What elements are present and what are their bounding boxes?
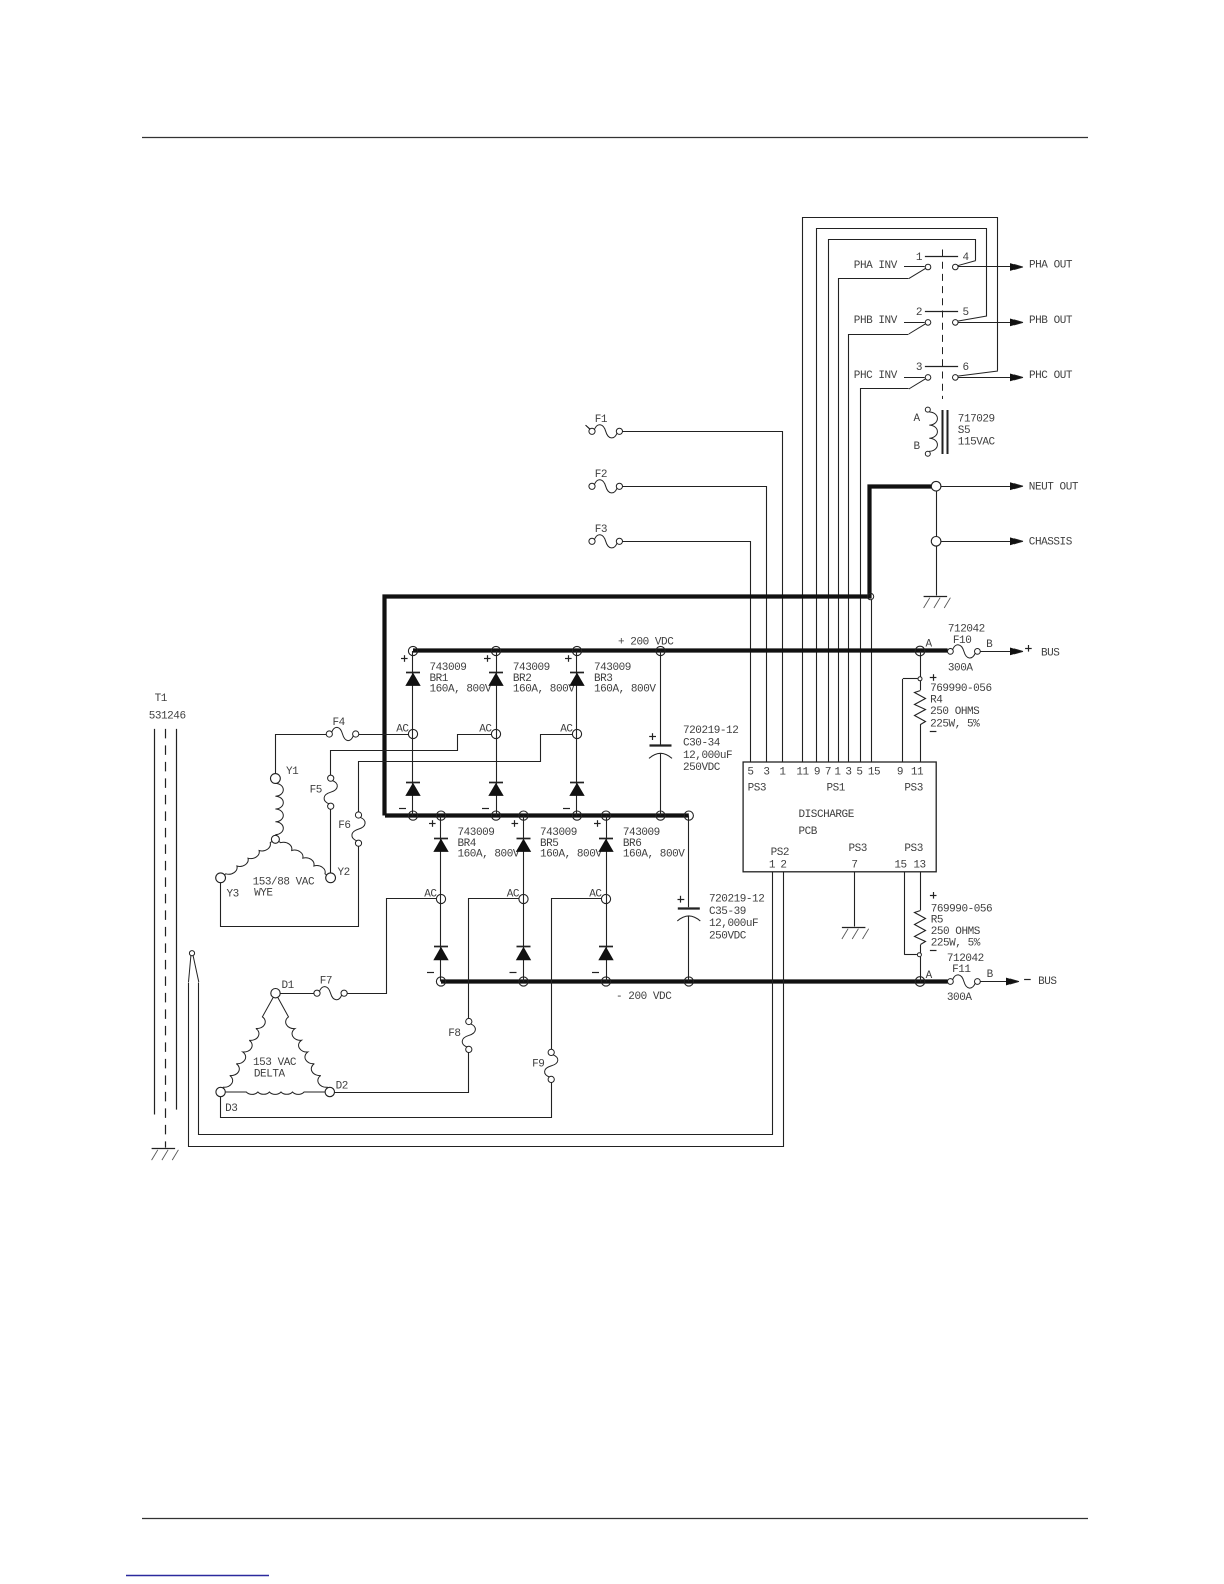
- transformer shield: [189, 951, 194, 956]
- svg-text:F4: F4: [333, 717, 346, 729]
- svg-text:D3: D3: [225, 1103, 237, 1115]
- wire F8 to BR5 AC: [469, 899, 519, 1019]
- svg-text:160A, 800V: 160A, 800V: [513, 684, 575, 696]
- node Y1: [271, 774, 281, 784]
- svg-text:PS3: PS3: [748, 782, 766, 794]
- svg-text:13: 13: [913, 860, 925, 872]
- bridge rectifier BR6 743009: [606, 816, 608, 982]
- resistor R4 769990-056 250 OHMS: [920, 651, 922, 677]
- node wye center: [271, 835, 279, 843]
- svg-text:2: 2: [916, 307, 922, 319]
- delta winding 153 VAC: [221, 993, 276, 1092]
- svg-text:160A, 800V: 160A, 800V: [430, 684, 492, 696]
- svg-text:531246: 531246: [149, 711, 186, 723]
- svg-text:9: 9: [897, 767, 903, 779]
- node BR3 AC terminal: [572, 729, 581, 738]
- ground chassis: [924, 596, 948, 598]
- svg-text:12,000uF: 12,000uF: [683, 750, 732, 762]
- wire D2 to F8: [335, 1053, 469, 1093]
- contactor coil S5 717029 115VAC: [925, 407, 930, 412]
- wire Y1 to F4: [276, 735, 327, 774]
- wire D1 to F7: [280, 993, 314, 995]
- svg-text:160A, 800V: 160A, 800V: [540, 849, 602, 861]
- svg-text:F11: F11: [952, 964, 971, 976]
- node BR6 AC terminal: [601, 894, 610, 903]
- node D3: [216, 1087, 225, 1096]
- wire junction to PS1 pin 15: [871, 600, 873, 762]
- svg-text:NEUT OUT: NEUT OUT: [1029, 481, 1079, 493]
- svg-text:5: 5: [856, 767, 862, 779]
- svg-text:F3: F3: [595, 524, 607, 536]
- top horizontal rule: [142, 137, 1088, 139]
- node BR5 AC terminal: [519, 894, 528, 903]
- svg-text:300A: 300A: [948, 663, 973, 675]
- blue footnote rule: [126, 1575, 269, 1577]
- wire PHA OUT output: [958, 266, 1012, 268]
- svg-text:PCB: PCB: [799, 826, 818, 838]
- transformer T1 boundary line right: [176, 729, 178, 1110]
- bottom horizontal rule: [142, 1518, 1088, 1520]
- svg-text:1: 1: [769, 860, 776, 872]
- wire PHC INV to PS1: [861, 389, 909, 763]
- svg-text:B: B: [914, 441, 921, 453]
- svg-text:5: 5: [963, 307, 969, 319]
- wire F3 to PS3: [623, 542, 751, 763]
- svg-text:12,000uF: 12,000uF: [709, 918, 758, 930]
- wire PHC OUT output: [958, 377, 1012, 379]
- resistor R5 769990-056 250 OHMS: [920, 872, 922, 910]
- svg-text:DISCHARGE: DISCHARGE: [799, 809, 855, 821]
- svg-text:250VDC: 250VDC: [683, 762, 721, 774]
- wire F7 to BR4 AC: [348, 899, 437, 994]
- svg-text:PHA OUT: PHA OUT: [1029, 260, 1073, 272]
- svg-text:F10: F10: [953, 635, 971, 647]
- wire D3 to F9: [221, 1083, 552, 1118]
- svg-text:AC: AC: [560, 724, 573, 736]
- node C35-39 bottom: [684, 977, 693, 986]
- node BR3 + terminal: [572, 646, 581, 655]
- svg-text:BUS: BUS: [1041, 648, 1060, 660]
- svg-text:BUS: BUS: [1038, 976, 1057, 988]
- svg-text:C35-39: C35-39: [709, 906, 746, 918]
- node Y3: [216, 873, 226, 883]
- svg-text:Y2: Y2: [338, 867, 350, 879]
- fuse F11 712042 300A: [948, 979, 954, 985]
- node neutral corner junction: [867, 593, 873, 599]
- fuse F5: [328, 775, 334, 781]
- node CHASSIS: [931, 537, 941, 547]
- svg-text:769990-056: 769990-056: [930, 683, 992, 695]
- svg-text:717029: 717029: [958, 413, 995, 425]
- svg-text:712042: 712042: [948, 624, 985, 636]
- CHASSIS arrow: [941, 541, 1012, 543]
- fuse F2: [586, 425, 590, 429]
- node C35-39 top: [684, 811, 693, 820]
- svg-text:3: 3: [763, 767, 769, 779]
- node D2: [325, 1087, 334, 1096]
- svg-text:CHASSIS: CHASSIS: [1029, 536, 1073, 548]
- transformer T1 boundary line left: [154, 729, 156, 1115]
- svg-text:720219-12: 720219-12: [683, 725, 738, 737]
- svg-text:F8: F8: [448, 1028, 460, 1040]
- svg-text:4: 4: [963, 252, 970, 264]
- transformer T1 core dashed line: [165, 729, 167, 1148]
- wire PS2 pin 2 to shield: [189, 872, 784, 1147]
- fuse F9: [548, 1049, 554, 1055]
- svg-text:1: 1: [916, 252, 923, 264]
- wire PHB OUT output: [958, 322, 1012, 324]
- wire PS3 pin 7 to ground: [854, 872, 856, 927]
- svg-text:115VAC: 115VAC: [958, 437, 996, 449]
- svg-text:6: 6: [963, 362, 969, 374]
- svg-text:225W, 5%: 225W, 5%: [930, 718, 980, 730]
- svg-text:F5: F5: [310, 785, 322, 797]
- svg-text:3: 3: [845, 767, 851, 779]
- svg-text:11: 11: [796, 767, 809, 779]
- svg-text:PS3: PS3: [849, 843, 867, 855]
- svg-text:AC: AC: [396, 724, 409, 736]
- bridge rectifier BR2 743009: [496, 651, 498, 816]
- + BUS arrow: [980, 651, 1012, 653]
- svg-text:D2: D2: [336, 1081, 348, 1093]
- fuse F4: [326, 731, 332, 737]
- fuse F3: [586, 425, 590, 429]
- svg-text:F7: F7: [320, 975, 332, 987]
- wire NEUT to CHASSIS: [936, 491, 938, 537]
- svg-text:A: A: [926, 638, 933, 650]
- node Y2: [326, 873, 336, 883]
- node C30-34 bottom: [656, 811, 665, 820]
- wire F2 to PS3: [623, 487, 767, 763]
- svg-text:R4: R4: [930, 694, 943, 706]
- svg-text:Y1: Y1: [286, 766, 299, 778]
- svg-text:Y3: Y3: [227, 888, 239, 900]
- svg-text:PS3: PS3: [904, 843, 922, 855]
- svg-text:250 OHMS: 250 OHMS: [931, 926, 981, 938]
- node BR5 - terminal: [519, 977, 528, 986]
- node BR2 AC terminal: [491, 729, 500, 738]
- svg-text:225W, 5%: 225W, 5%: [931, 937, 981, 949]
- fuse F10 712042 300A: [948, 649, 954, 655]
- wire PHB INV to PS1: [849, 335, 909, 763]
- node + bus A terminal: [915, 646, 925, 656]
- contactor linkage dashed line: [942, 250, 944, 400]
- node D1: [271, 989, 280, 998]
- svg-text:F2: F2: [595, 469, 607, 481]
- svg-text:F1: F1: [595, 414, 608, 426]
- node BR6 + terminal: [601, 811, 610, 820]
- fuse F6: [355, 812, 361, 818]
- discharge PCB box: [743, 762, 936, 872]
- node BR1 - terminal: [408, 811, 417, 820]
- svg-text:153 VAC: 153 VAC: [253, 1057, 297, 1069]
- node BR6 - terminal: [601, 977, 610, 986]
- wire F1 to PS3: [623, 432, 783, 763]
- svg-text:11: 11: [911, 767, 924, 779]
- ground PS3 pin 7: [842, 927, 866, 929]
- svg-text:R5: R5: [931, 915, 943, 927]
- node BR3 - terminal: [572, 811, 581, 820]
- wire F6 to BR3 AC: [359, 735, 573, 812]
- svg-text:+ 200 VDC: + 200 VDC: [618, 637, 674, 649]
- bridge rectifier BR3 743009: [576, 651, 578, 816]
- ground T1 core: [152, 1148, 176, 1150]
- svg-text:160A, 800V: 160A, 800V: [594, 684, 656, 696]
- svg-text:PHA INV: PHA INV: [854, 260, 898, 272]
- svg-text:- 200 VDC: - 200 VDC: [616, 991, 672, 1003]
- node BR5 + terminal: [519, 811, 528, 820]
- node BR2 + terminal: [491, 646, 500, 655]
- svg-text:15: 15: [868, 767, 880, 779]
- capacitor C35-39 720219-12: [688, 816, 690, 908]
- svg-text:PHC OUT: PHC OUT: [1029, 370, 1073, 382]
- svg-text:PS2: PS2: [771, 847, 789, 859]
- wire F9 to BR6 AC: [552, 899, 602, 1050]
- svg-text:F9: F9: [532, 1058, 544, 1070]
- node BR1 + terminal: [408, 646, 417, 655]
- - BUS arrow: [980, 981, 1008, 983]
- node BR2 - terminal: [491, 811, 500, 820]
- fuse F8: [466, 1018, 472, 1024]
- fuse F7: [314, 990, 320, 996]
- svg-text:PHC INV: PHC INV: [854, 370, 898, 382]
- wire Y2 to F5: [330, 809, 332, 873]
- node BR1 AC terminal: [408, 729, 417, 738]
- wire neutral bus (thick): [385, 487, 932, 816]
- svg-text:720219-12: 720219-12: [709, 894, 764, 906]
- svg-text:A: A: [926, 970, 933, 982]
- wire F5 to BR2 AC: [331, 735, 492, 776]
- wire CHASSIS to ground: [936, 546, 938, 595]
- svg-text:300A: 300A: [947, 992, 972, 1004]
- bridge rectifier BR4 743009: [440, 816, 442, 982]
- svg-text:160A, 800V: 160A, 800V: [623, 849, 685, 861]
- svg-text:D1: D1: [282, 980, 295, 992]
- NEUT OUT arrow: [941, 486, 1012, 488]
- wye winding 153/88 VAC: [275, 783, 283, 834]
- svg-text:B: B: [986, 639, 993, 651]
- svg-text:PHB OUT: PHB OUT: [1029, 315, 1073, 327]
- wire PS2 pin 1 to shield: [199, 872, 773, 1135]
- svg-text:S5: S5: [958, 425, 970, 437]
- svg-text:WYE: WYE: [254, 888, 273, 900]
- wire PHA OUT nest to PS1: [829, 240, 976, 763]
- svg-text:AC: AC: [479, 724, 492, 736]
- wire R5 to PS3 pin 15: [904, 872, 906, 955]
- wire F4 to BR1 AC: [359, 734, 409, 736]
- wire Y3 to F6: [221, 847, 359, 927]
- svg-text:PHB INV: PHB INV: [854, 315, 898, 327]
- node BR4 - terminal: [436, 977, 445, 986]
- bridge rectifier BR5 743009: [523, 816, 525, 982]
- bus -200 VDC (thick): [441, 979, 948, 983]
- node BR4 + terminal: [436, 811, 445, 820]
- svg-text:DELTA: DELTA: [254, 1068, 286, 1080]
- svg-text:B: B: [987, 969, 994, 981]
- node - bus A terminal: [915, 977, 925, 987]
- svg-text:1: 1: [834, 767, 841, 779]
- svg-text:1: 1: [779, 767, 786, 779]
- capacitor C30-34 720219-12: [660, 651, 662, 745]
- svg-text:A: A: [914, 413, 921, 425]
- svg-text:9: 9: [814, 767, 820, 779]
- svg-text:PS1: PS1: [827, 782, 846, 794]
- wire PHA INV to PS1: [839, 279, 909, 763]
- svg-text:160A, 800V: 160A, 800V: [458, 849, 520, 861]
- bus +200 VDC (thick): [413, 648, 948, 652]
- svg-text:7: 7: [851, 860, 857, 872]
- svg-text:5: 5: [747, 767, 753, 779]
- svg-text:250 OHMS: 250 OHMS: [930, 706, 980, 718]
- bridge rectifier BR1 743009: [412, 651, 414, 816]
- svg-text:PS3: PS3: [904, 782, 922, 794]
- svg-text:C30-34: C30-34: [683, 738, 721, 750]
- svg-text:3: 3: [916, 362, 922, 374]
- bus middle (thick): [385, 813, 689, 817]
- svg-text:2: 2: [780, 860, 786, 872]
- node BR4 AC terminal: [436, 894, 445, 903]
- wire PHC OUT nest to PS1: [803, 218, 998, 763]
- wire PHB OUT nest to PS1: [817, 229, 987, 763]
- svg-text:7: 7: [825, 767, 831, 779]
- node NEUT OUT: [931, 481, 941, 491]
- svg-text:15: 15: [894, 860, 906, 872]
- node C30-34 top: [656, 646, 665, 655]
- wire R4 to PS3 pin 9: [902, 679, 904, 762]
- svg-text:250VDC: 250VDC: [709, 931, 747, 943]
- svg-text:T1: T1: [155, 693, 168, 705]
- svg-text:F6: F6: [338, 820, 350, 832]
- fuse F1: [586, 425, 590, 429]
